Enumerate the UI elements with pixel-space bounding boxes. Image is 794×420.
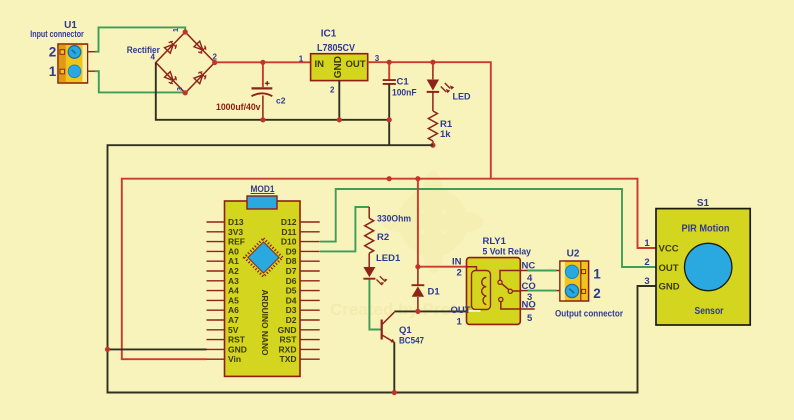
svg-text:GND: GND xyxy=(228,344,247,354)
svg-text:RST: RST xyxy=(228,335,246,345)
svg-text:D13: D13 xyxy=(228,217,244,227)
svg-text:OUT: OUT xyxy=(659,263,679,274)
U1 pin 1 stub xyxy=(88,70,96,72)
svg-text:D7: D7 xyxy=(286,266,297,276)
svg-text:A1: A1 xyxy=(228,256,239,266)
svg-text:c2: c2 xyxy=(276,96,286,106)
rectifier BR1 bridge xyxy=(156,32,215,93)
svg-text:2: 2 xyxy=(330,86,335,95)
svg-text:A5: A5 xyxy=(228,295,239,305)
C2 junction dot bottom xyxy=(260,117,265,122)
D1 bottom junction dot xyxy=(415,309,420,314)
wire LED1 cathode to Q1 base (green) xyxy=(369,280,381,330)
connector U2 (output connector) xyxy=(560,261,589,301)
LED1 xyxy=(363,267,387,285)
svg-text:1: 1 xyxy=(593,267,601,282)
svg-text:Input connector: Input connector xyxy=(30,29,84,40)
node 1 dot xyxy=(183,29,188,34)
svg-text:S1: S1 xyxy=(697,198,710,209)
svg-text:1: 1 xyxy=(173,28,180,32)
svg-text:5 Volt Relay: 5 Volt Relay xyxy=(483,247,532,258)
svg-text:D5: D5 xyxy=(286,286,297,296)
+5V rail wire (red) xyxy=(122,179,656,360)
svg-text:OUT: OUT xyxy=(346,59,366,70)
node 2 dot xyxy=(212,60,217,65)
D1 top junction dot xyxy=(415,264,420,269)
resistor R1 xyxy=(428,111,437,141)
svg-text:GND: GND xyxy=(333,56,344,78)
svg-text:1k: 1k xyxy=(440,129,451,140)
svg-text:4: 4 xyxy=(151,53,156,62)
wire relay CO to U2 pin2 xyxy=(520,290,559,292)
svg-text:1: 1 xyxy=(457,317,463,328)
relay feed junction dot xyxy=(415,176,420,181)
svg-text:D10: D10 xyxy=(281,237,297,247)
GND branch junction dot xyxy=(105,347,110,352)
svg-text:Vin: Vin xyxy=(228,354,241,364)
svg-text:REF: REF xyxy=(228,237,245,247)
svg-text:2: 2 xyxy=(644,257,649,268)
transistor Q1 BC547 xyxy=(382,312,395,392)
svg-text:LED: LED xyxy=(453,92,471,103)
svg-text:Q1: Q1 xyxy=(399,325,412,336)
svg-text:A3: A3 xyxy=(228,276,239,286)
svg-text:VCC: VCC xyxy=(659,244,679,255)
svg-text:RXD: RXD xyxy=(279,344,297,354)
capacitor C2 xyxy=(252,62,273,120)
R1 ground junction dot xyxy=(430,143,435,148)
svg-text:2: 2 xyxy=(457,268,462,279)
svg-text:3: 3 xyxy=(177,87,184,91)
svg-text:A0: A0 xyxy=(228,246,239,256)
svg-text:TXD: TXD xyxy=(280,354,297,364)
svg-text:A4: A4 xyxy=(228,286,239,296)
svg-text:IC1: IC1 xyxy=(321,29,337,40)
C1 junction dot top xyxy=(387,60,392,65)
svg-text:C1: C1 xyxy=(397,77,410,88)
svg-text:2: 2 xyxy=(593,286,601,301)
svg-text:LED1: LED1 xyxy=(376,253,401,264)
svg-text:IN: IN xyxy=(452,257,462,268)
svg-text:330Ohm: 330Ohm xyxy=(377,214,411,225)
svg-text:3: 3 xyxy=(644,276,649,287)
junction dot on +5V rail xyxy=(387,176,392,181)
wire U1 pin2 to rectifier node 1 (green) xyxy=(95,27,185,51)
wire R1 bottom to ground rail2 xyxy=(432,141,434,145)
svg-text:BC547: BC547 xyxy=(399,336,424,347)
C2 junction dot top xyxy=(260,60,265,65)
wire Arduino GND branch (black) xyxy=(108,348,207,350)
svg-text:D8: D8 xyxy=(286,256,297,266)
C1 ground rail junction dot xyxy=(387,117,392,122)
resistor R2 xyxy=(365,207,374,267)
relay NO stub xyxy=(520,308,534,310)
svg-text:D3: D3 xyxy=(286,305,297,315)
svg-text:D2: D2 xyxy=(286,315,297,325)
ground rail 2 / main ground loop wire xyxy=(108,145,657,392)
svg-text:PIR Motion: PIR Motion xyxy=(682,224,730,235)
svg-text:1: 1 xyxy=(644,238,650,249)
diode D1 flyback xyxy=(412,267,425,312)
svg-text:MOD1: MOD1 xyxy=(251,184,276,195)
svg-text:U2: U2 xyxy=(567,249,580,260)
wire D10 to PIR OUT (green) xyxy=(320,189,656,267)
Arduino Nano module MOD1 xyxy=(207,196,320,376)
svg-text:IN: IN xyxy=(315,59,325,70)
svg-text:1: 1 xyxy=(49,64,57,79)
svg-text:2: 2 xyxy=(49,45,57,60)
LED junction dot xyxy=(430,60,435,65)
svg-text:D12: D12 xyxy=(281,217,297,227)
svg-text:D11: D11 xyxy=(281,227,296,237)
svg-text:A6: A6 xyxy=(228,305,239,315)
svg-text:D9: D9 xyxy=(286,246,297,256)
svg-text:R2: R2 xyxy=(377,232,389,243)
wire U1 pin1 to rectifier node 3 (green) xyxy=(95,71,184,92)
wire relay NC to U2 pin1 xyxy=(520,270,559,272)
wire D9 to R2 (green) xyxy=(320,207,369,251)
svg-text:RLY1: RLY1 xyxy=(483,236,507,247)
svg-text:5: 5 xyxy=(527,313,533,324)
PIR sensor S1 xyxy=(656,209,750,325)
svg-text:Output connector: Output connector xyxy=(555,309,623,320)
svg-text:L7805CV: L7805CV xyxy=(317,43,355,54)
svg-text:GND: GND xyxy=(659,282,680,293)
watermark xyxy=(330,171,486,319)
svg-text:1: 1 xyxy=(299,55,304,64)
svg-text:D4: D4 xyxy=(286,295,297,305)
wire IC1 GND pin to ground rail xyxy=(338,81,340,120)
svg-text:5V: 5V xyxy=(228,325,239,335)
wire IC1 OUT +5V (red) xyxy=(368,62,491,179)
svg-text:3V3: 3V3 xyxy=(228,227,243,237)
svg-text:D6: D6 xyxy=(286,276,297,286)
svg-text:OUT: OUT xyxy=(451,305,471,316)
wire rectifier node2 to IC1 IN (red) xyxy=(215,61,311,63)
svg-text:A7: A7 xyxy=(228,315,239,325)
svg-text:Rectifier: Rectifier xyxy=(127,45,160,55)
node 3 dot xyxy=(183,90,188,95)
svg-text:A2: A2 xyxy=(228,266,239,276)
svg-text:GND: GND xyxy=(278,325,297,335)
Q1 emitter ground junction dot xyxy=(392,390,397,395)
wire +5V to relay coil (red) xyxy=(418,179,467,267)
wire Q1 collector to relay OUT (black) xyxy=(394,310,466,312)
voltage regulator IC1 L7805CV xyxy=(311,54,368,81)
capacitor C1 xyxy=(383,62,396,145)
svg-text:1000uf/40v: 1000uf/40v xyxy=(216,102,261,113)
svg-text:RST: RST xyxy=(280,335,298,345)
svg-text:Sensor: Sensor xyxy=(695,306,724,317)
wire ground rail from rectifier node 4 xyxy=(156,63,389,120)
svg-text:100nF: 100nF xyxy=(392,88,417,99)
relay RLY1 5 Volt Relay xyxy=(467,258,521,325)
connector U1 (input connector) xyxy=(58,44,88,83)
IC1 GND junction dot xyxy=(337,117,342,122)
svg-text:D1: D1 xyxy=(428,287,441,298)
U1 pin 2 stub xyxy=(88,51,96,53)
LED D2 power indicator xyxy=(427,62,454,111)
svg-text:ARDUINO NANO: ARDUINO NANO xyxy=(260,290,270,356)
